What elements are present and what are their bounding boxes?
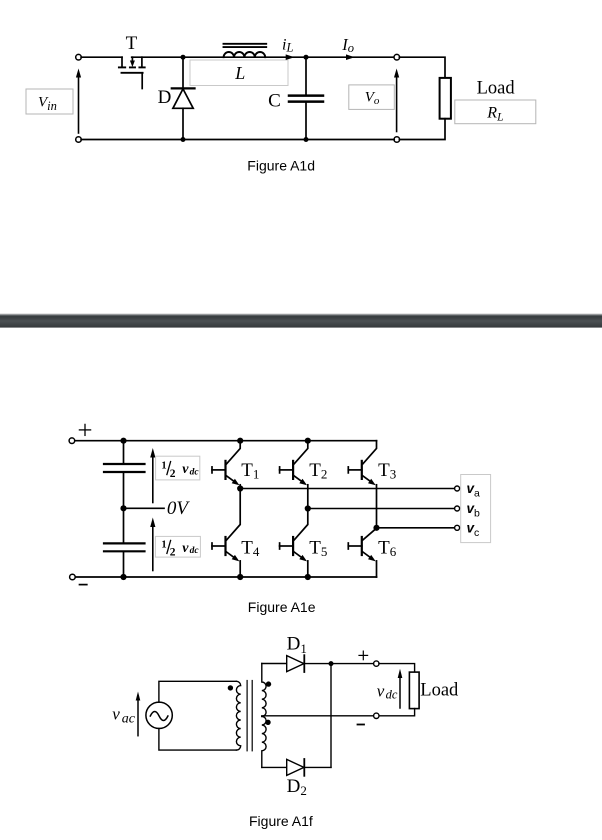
node A (diode tap): [181, 55, 186, 60]
resistor RL (load): [440, 78, 451, 119]
svg-text:b: b: [474, 507, 480, 519]
terminal +: [374, 661, 379, 666]
capacitor C: [289, 57, 323, 139]
transistor T5: [280, 509, 308, 578]
wire primary top: [159, 681, 237, 702]
svg-text:L: L: [234, 63, 245, 83]
label box 1/2 vdc lower: [155, 536, 200, 558]
node D (capacitor bottom): [304, 137, 309, 142]
transistor T1: [212, 441, 240, 489]
capacitor C1 (upper half): [104, 464, 145, 472]
svg-text:v: v: [112, 704, 120, 723]
svg-text:v: v: [182, 462, 189, 477]
arrow vdc: [398, 669, 403, 708]
terminal va: [455, 486, 460, 491]
transistor T4: [212, 489, 240, 578]
output terminal top: [394, 54, 400, 60]
svg-text:Figure A1d: Figure A1d: [247, 157, 315, 173]
diode D1: [287, 655, 305, 672]
diode D2: [287, 759, 305, 776]
page separator band: [0, 313, 602, 327]
input terminal top-left: [76, 54, 82, 60]
label va: [467, 481, 481, 500]
svg-text:Load: Load: [420, 681, 459, 701]
svg-text:dc: dc: [386, 687, 398, 701]
svg-text:0V: 0V: [167, 498, 191, 519]
wire secondary bottom to D2: [262, 766, 287, 768]
arrow Io (output current): [346, 54, 355, 60]
svg-text:2: 2: [170, 468, 176, 480]
svg-text:1: 1: [161, 540, 166, 551]
svg-text:Figure A1e: Figure A1e: [248, 599, 316, 615]
node bottom rail leg1: [237, 574, 243, 580]
transistor T3: [348, 441, 376, 528]
output terminal bottom: [394, 137, 400, 143]
arrow iL (inductor current): [286, 54, 295, 60]
label -: [358, 724, 365, 726]
polarity dot secondary lower: [265, 720, 270, 725]
wire bottom rail: [81, 139, 394, 141]
wire bottom-right from load: [399, 119, 445, 140]
transistor T2: [280, 441, 308, 509]
svg-text:1: 1: [161, 461, 166, 472]
wire top: node A to node B (under inductor): [183, 56, 306, 58]
svg-text:Figure A1f: Figure A1f: [249, 813, 313, 829]
wire top rail: [75, 440, 377, 442]
label box Vin: [26, 89, 73, 114]
inductor L winding: [224, 52, 266, 57]
wire capacitor leg: [123, 441, 125, 577]
wire center tap: [262, 715, 374, 717]
node top rail leg2: [305, 438, 311, 444]
arrow Vo (output voltage): [394, 69, 399, 132]
label vc: [467, 520, 480, 539]
node bottom rail leg2: [305, 574, 311, 580]
node phase c tap: [373, 525, 379, 531]
dc- terminal: [70, 574, 76, 580]
wire diode join vertical: [330, 664, 332, 768]
terminal vb: [455, 506, 460, 511]
wire D2 to join: [304, 766, 331, 768]
wire + terminal to load: [379, 664, 415, 673]
node 0V (midpoint): [120, 505, 164, 511]
diode D (freewheeling): [172, 57, 195, 139]
resistor load: [409, 672, 419, 709]
node B (capacitor tap): [304, 55, 309, 60]
wire phase a: [240, 488, 454, 490]
dc+ terminal: [69, 438, 75, 444]
wire top-left: terminal to transistor: [81, 56, 122, 58]
transistor T (MOSFET switch): [119, 57, 145, 88]
svg-text:dc: dc: [190, 467, 200, 477]
node diode outputs join: [329, 661, 334, 666]
svg-text:a: a: [474, 488, 480, 500]
wire phase b: [308, 508, 455, 510]
inductor L core bars: [224, 44, 267, 47]
polarity dot secondary upper: [266, 681, 271, 686]
wire secondary top to D1: [262, 663, 287, 665]
svg-text:v: v: [182, 541, 189, 556]
terminal vc: [455, 525, 460, 530]
label +: [79, 424, 90, 435]
wire bottom rail: [75, 576, 376, 578]
label box L (annotation box): [190, 60, 288, 86]
svg-text:D: D: [158, 87, 172, 108]
node phase a tap: [237, 485, 243, 491]
label box 1/2 vdc upper: [156, 456, 200, 480]
arrow Vin (input voltage): [76, 69, 81, 134]
label +: [359, 651, 368, 660]
svg-text:T: T: [126, 33, 138, 54]
wire primary bottom: [159, 728, 237, 750]
transformer core: [247, 681, 252, 751]
wire D1 to + terminal: [304, 663, 373, 665]
node top rail leg1: [237, 438, 243, 444]
svg-text:C: C: [268, 90, 281, 111]
svg-text:2: 2: [170, 547, 176, 559]
svg-text:c: c: [474, 527, 479, 539]
node phase b tap: [305, 505, 311, 511]
arrow half Vdc lower: [150, 518, 155, 571]
transformer secondary winding lower + lead to D2: [262, 716, 266, 767]
node C (diode bottom): [181, 137, 186, 142]
node top rail / capacitor leg: [120, 438, 126, 444]
terminal -: [374, 713, 379, 718]
input terminal bottom-left: [76, 137, 82, 143]
wire load to - terminal: [379, 709, 415, 716]
label box RL: [455, 100, 536, 124]
svg-text:v: v: [377, 682, 385, 701]
label vac: [112, 704, 135, 726]
polarity dot primary: [228, 685, 233, 690]
svg-text:ac: ac: [122, 711, 136, 726]
label box Vo: [349, 85, 395, 110]
svg-text:dc: dc: [190, 546, 200, 556]
wire top: node B to output terminal: [306, 56, 394, 58]
label -: [80, 584, 87, 586]
transformer primary winding: [236, 681, 240, 750]
node bottom rail / capacitor leg: [120, 574, 126, 580]
label vb: [467, 501, 481, 520]
arrow vac: [136, 692, 141, 736]
ac source vac: [146, 702, 172, 728]
svg-text:Load: Load: [477, 79, 516, 99]
arrow half Vdc upper: [150, 448, 155, 503]
label vdc: [377, 682, 398, 702]
wire top-right to load: [399, 57, 445, 78]
label box va vb vc: [461, 475, 491, 543]
transistor T6: [348, 528, 376, 577]
wire top: transistor to node A: [132, 56, 183, 58]
wire phase c: [377, 527, 455, 529]
transformer secondary winding upper + lead to D1: [262, 664, 266, 717]
capacitor C2 (lower half): [104, 543, 145, 551]
